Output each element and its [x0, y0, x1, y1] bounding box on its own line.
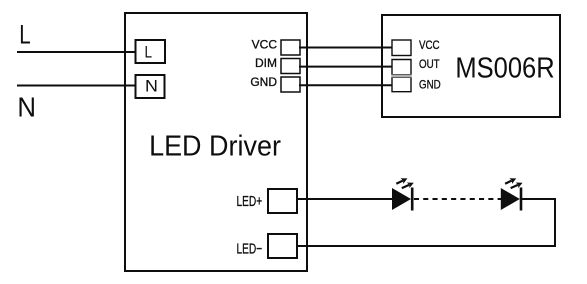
svg-text:N: N: [145, 76, 158, 96]
pin OUT of MS006R: [391, 58, 440, 74]
pin LED+ of LED Driver: [237, 189, 298, 213]
svg-text:LED+: LED+: [237, 193, 263, 209]
wire VCC to module: [299, 47, 393, 49]
pin GND of MS006R: [391, 77, 441, 92]
svg-text:GND: GND: [250, 75, 277, 89]
wire LED2 cathode to corner: [521, 198, 556, 200]
pin LED- of LED Driver: [237, 234, 298, 258]
terminal N pin box: [136, 75, 165, 98]
wire right vertical return: [554, 198, 556, 247]
wire N input: [17, 85, 137, 87]
svg-text:VCC: VCC: [252, 38, 278, 52]
svg-text:N: N: [17, 92, 36, 123]
svg-text:OUT: OUT: [419, 58, 440, 71]
svg-text:LED−: LED−: [237, 241, 263, 257]
wire dashed (more LEDs in series): [414, 198, 501, 200]
module MS006R block U2: [382, 15, 560, 117]
LED D2: [501, 176, 524, 211]
pin VCC of LED Driver: [252, 38, 300, 56]
pin DIM of LED Driver: [255, 56, 300, 74]
svg-text:L: L: [19, 20, 30, 50]
LED D1: [392, 176, 415, 211]
wire L input: [17, 51, 137, 53]
wire DIM to OUT: [299, 66, 393, 68]
pin GND of LED Driver: [250, 75, 300, 92]
svg-text:LED Driver: LED Driver: [149, 130, 281, 162]
LED Driver block U1: [125, 13, 307, 271]
svg-text:DIM: DIM: [255, 56, 277, 70]
wire bottom return to LED-: [296, 245, 556, 247]
svg-text:VCC: VCC: [419, 39, 440, 52]
wire LED+ to first LED anode: [296, 198, 393, 200]
terminal L pin box: [136, 40, 166, 63]
svg-text:MS006R: MS006R: [455, 51, 554, 84]
pin VCC of MS006R: [392, 39, 440, 55]
svg-text:L: L: [145, 43, 153, 62]
wire GND to module: [299, 84, 393, 86]
svg-text:GND: GND: [419, 79, 441, 92]
